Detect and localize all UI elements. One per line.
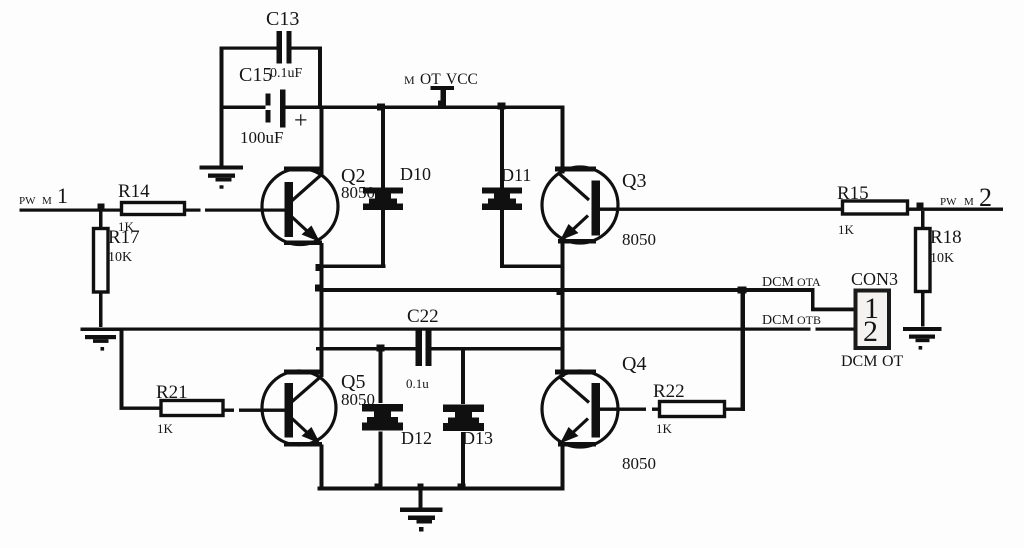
node D12 bottom junction bbox=[375, 484, 383, 491]
node rail-VCC junction bbox=[438, 101, 446, 107]
node PWM1 input label bbox=[19, 183, 68, 208]
wire Q3 base to R15 bbox=[596, 208, 843, 211]
ground under R17 bbox=[81, 328, 121, 351]
diode D12 bbox=[362, 349, 432, 490]
node PWM2 junction bbox=[917, 203, 924, 209]
wire node A to D10 bottom bbox=[320, 265, 386, 269]
node PWM2 output label bbox=[940, 183, 992, 212]
wire right vertical C13 to rail bbox=[318, 47, 322, 109]
svg-text:D10: D10 bbox=[400, 164, 431, 184]
svg-text:0.1uF: 0.1uF bbox=[270, 66, 303, 81]
svg-text:OTB: OTB bbox=[797, 313, 821, 327]
capacitor C13 bbox=[266, 8, 299, 64]
transistor Q2 bbox=[262, 165, 375, 245]
capacitor C15 bbox=[239, 64, 308, 147]
svg-text:DCM: DCM bbox=[762, 313, 794, 328]
svg-text:1K: 1K bbox=[838, 222, 855, 237]
resistor R22 bbox=[653, 381, 725, 436]
wire DCMOTA corner into CON3 pin 1 bbox=[811, 290, 815, 311]
wire R14 to Q2 base bbox=[185, 209, 201, 212]
wire bottom emitter line bbox=[318, 487, 565, 491]
node DCMOTA left junction bbox=[315, 285, 322, 292]
wire R15 to PWM2 bbox=[908, 208, 1004, 211]
svg-text:OTA: OTA bbox=[797, 275, 821, 289]
wire node A to C22 left plate bbox=[316, 347, 416, 351]
svg-text:C22: C22 bbox=[407, 306, 439, 327]
svg-text:M: M bbox=[404, 73, 415, 87]
svg-text:Q4: Q4 bbox=[622, 353, 646, 375]
svg-text:OT: OT bbox=[882, 353, 904, 370]
wire left vertical of C13/C15 loop bbox=[220, 47, 224, 166]
diode D13 bbox=[443, 350, 493, 489]
wire DCMOTB line bbox=[118, 328, 811, 331]
wire DCMOTA line bbox=[320, 288, 815, 292]
svg-text:0.1u: 0.1u bbox=[406, 376, 429, 391]
wire R21 to Q5 base bbox=[223, 409, 234, 412]
svg-text:M: M bbox=[964, 196, 974, 208]
svg-text:2: 2 bbox=[979, 183, 992, 212]
wire D11 bottom to node B bbox=[500, 265, 565, 269]
svg-text:R14: R14 bbox=[118, 181, 150, 202]
diode D10 bbox=[363, 109, 431, 268]
node rail-D10 junction bbox=[377, 104, 385, 111]
resistor R18 bbox=[916, 227, 962, 292]
svg-text:C15: C15 bbox=[239, 64, 272, 86]
ground bottom center bbox=[400, 484, 443, 532]
svg-text:R22: R22 bbox=[653, 381, 685, 402]
svg-text:8050: 8050 bbox=[622, 230, 656, 249]
wire Q4 emitter down to bottom line bbox=[561, 445, 565, 491]
wire C15 left lead bbox=[220, 106, 266, 110]
ground top-left bbox=[200, 166, 244, 189]
wire Q4 base to R22 bbox=[596, 408, 646, 411]
svg-text:8050: 8050 bbox=[622, 454, 656, 473]
diode D11 bbox=[482, 109, 531, 268]
wire Q3 emitter / node B vertical bbox=[561, 242, 565, 378]
svg-text:D12: D12 bbox=[401, 428, 432, 448]
wire R21 left lead bbox=[120, 407, 162, 410]
resistor R15 bbox=[837, 183, 908, 237]
wire Q2 emitter / node A vertical bbox=[320, 243, 324, 377]
wire R22 up to DCMOTA line bbox=[741, 290, 746, 411]
svg-text:1K: 1K bbox=[157, 421, 174, 436]
wire R22 right lead bbox=[725, 408, 744, 411]
svg-text:100uF: 100uF bbox=[240, 128, 283, 147]
svg-text:R17: R17 bbox=[108, 227, 140, 248]
svg-text:VCC: VCC bbox=[446, 71, 478, 88]
svg-text:Q3: Q3 bbox=[622, 170, 646, 192]
svg-text:D11: D11 bbox=[501, 165, 531, 185]
label net DCMOTA bbox=[762, 275, 821, 290]
resistor R14 bbox=[118, 181, 185, 234]
power symbol MOT_VCC bbox=[404, 71, 478, 107]
node rail-D11 junction bbox=[498, 103, 506, 110]
node DCMOTA node-B crossing junction bbox=[557, 288, 565, 295]
svg-text:1: 1 bbox=[57, 183, 68, 208]
wire ground line drop to R21 bbox=[120, 330, 124, 408]
svg-text:+: + bbox=[294, 108, 308, 134]
transistor Q3 bbox=[542, 167, 656, 250]
wire Q2 collector to rail bbox=[320, 109, 324, 175]
wire C13 left lead bbox=[220, 47, 277, 50]
wire PWM1 input bbox=[20, 209, 122, 212]
connector CON3 bbox=[841, 269, 904, 370]
node D12 top junction bbox=[377, 345, 385, 352]
svg-text:10K: 10K bbox=[930, 251, 954, 266]
transistor Q4 bbox=[542, 353, 656, 473]
svg-text:C13: C13 bbox=[266, 8, 299, 30]
svg-text:R18: R18 bbox=[930, 227, 962, 248]
wire C13 right lead bbox=[292, 47, 323, 50]
wire C22 right plate to node B bbox=[432, 347, 565, 351]
wire rail corner to Q3 collector bbox=[561, 106, 565, 174]
resistor R17 bbox=[94, 227, 140, 292]
label net DCMOTB bbox=[762, 313, 821, 328]
wire R17 leads bbox=[99, 211, 103, 229]
wire MOT_VCC rail bbox=[286, 106, 565, 110]
node D13 bottom junction bbox=[458, 484, 466, 491]
svg-text:10K: 10K bbox=[108, 250, 132, 265]
svg-text:1K: 1K bbox=[656, 421, 673, 436]
svg-text:CON3: CON3 bbox=[851, 269, 898, 289]
svg-text:2: 2 bbox=[863, 315, 878, 348]
wire Q5 emitter down to bottom line bbox=[320, 445, 324, 491]
capacitor C22 bbox=[406, 306, 439, 391]
svg-text:M: M bbox=[42, 195, 52, 207]
svg-text:DCM: DCM bbox=[841, 353, 877, 370]
node PWM1 junction bbox=[98, 204, 105, 211]
node DCMOTA R22 branch junction bbox=[738, 287, 747, 294]
svg-text:PW: PW bbox=[940, 196, 957, 208]
wire R18 leads bbox=[921, 211, 925, 229]
svg-text:PW: PW bbox=[19, 195, 36, 207]
svg-text:DCM: DCM bbox=[762, 275, 794, 290]
svg-text:OT: OT bbox=[420, 71, 441, 88]
node A upper junction bbox=[316, 264, 323, 271]
ground under R18 bbox=[903, 327, 942, 350]
transistor Q5 bbox=[262, 370, 375, 447]
resistor R21 bbox=[156, 382, 223, 436]
